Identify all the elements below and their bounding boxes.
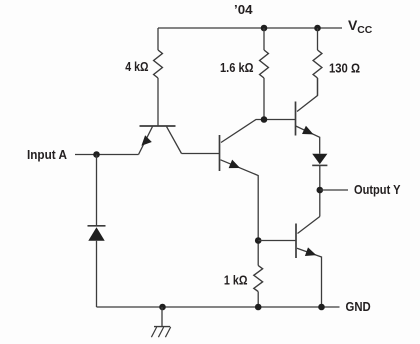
svg-text:’04: ’04: [234, 2, 253, 17]
svg-text:1.6 kΩ: 1.6 kΩ: [220, 60, 254, 75]
svg-text:Input A: Input A: [27, 147, 68, 162]
svg-text:GND: GND: [346, 299, 371, 314]
svg-text:CC: CC: [357, 24, 372, 36]
svg-text:1 kΩ: 1 kΩ: [224, 273, 248, 288]
svg-text:4 kΩ: 4 kΩ: [125, 59, 148, 74]
svg-text:Output Y: Output Y: [354, 182, 401, 197]
svg-text:130 Ω: 130 Ω: [329, 60, 360, 75]
